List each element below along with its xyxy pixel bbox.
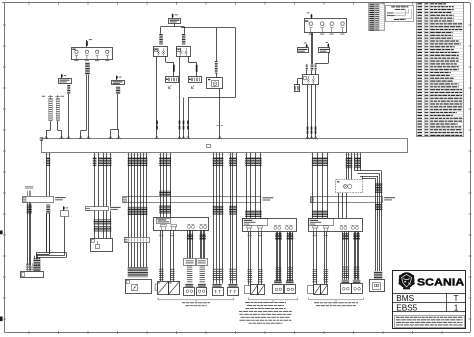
pin number labels under connector C1 xyxy=(74,59,109,62)
wire relay K2 to bus xyxy=(179,56,181,139)
component E1 label box xyxy=(298,43,309,53)
designation block above power connector xyxy=(33,259,40,272)
connector CB (open end) xyxy=(189,77,202,89)
copyright note box xyxy=(395,316,465,328)
6-wire group from harness (right end) xyxy=(345,153,362,180)
pin labels under connector C2 xyxy=(309,33,345,36)
wire relay K1 to connector CA xyxy=(166,56,175,76)
sensor quad mid-left xyxy=(274,231,282,284)
pressure sensor B3 xyxy=(212,284,223,296)
wheel speed sensor B7 xyxy=(341,284,352,294)
component G1 label box xyxy=(59,74,72,84)
wire bundle below C1 (designation band) xyxy=(85,62,90,139)
modulator valve V2 (diagonal symbol) xyxy=(169,282,180,295)
title block row dividers xyxy=(393,293,466,312)
wire colour legend box xyxy=(386,6,414,22)
stub wires above battery strip with label xyxy=(25,186,34,196)
ECU A3 box (right) xyxy=(309,219,363,232)
resistor network R1 (terminating resistors) xyxy=(42,95,64,121)
sensor quad harness (front left) xyxy=(187,230,193,258)
title text EBS5 / 1 xyxy=(396,303,458,312)
title text BMS / T xyxy=(396,294,458,303)
bundled wires routed to bottom-left power connector xyxy=(35,214,67,259)
component E2 label box xyxy=(319,42,330,52)
diagnostic connector box xyxy=(370,280,385,292)
bracket caption front axle group xyxy=(158,298,234,307)
wheel speed sensor B1 xyxy=(184,288,195,296)
wire designation band above relay K2 xyxy=(182,34,186,45)
relay K2 xyxy=(177,47,191,57)
title block outline xyxy=(393,271,466,329)
wires resistor network to bus xyxy=(46,121,61,139)
wheel speed sensor B2 xyxy=(197,288,207,296)
sensor quad right-left xyxy=(342,231,350,283)
wires battery strip down to central connector xyxy=(27,202,32,265)
sensor cable front right xyxy=(198,265,206,287)
return wires from supply loop to bus xyxy=(183,98,236,140)
wire relay K1 to bus xyxy=(156,56,158,139)
svg-text:1: 1 xyxy=(454,303,459,312)
fuse holder component near battery strip xyxy=(61,206,69,255)
connector C2 (4-pole, top center) xyxy=(305,19,347,33)
trailer connector strip xyxy=(86,207,121,211)
wire into buzzer H1 from supply branch xyxy=(215,28,218,78)
inline connector K-front-left xyxy=(184,259,196,266)
4-wire group harness to EBS ECU (left) xyxy=(159,153,172,218)
wire pair battery strip to bottom-left connector xyxy=(46,205,50,255)
connector C1 (4-pole, top left) xyxy=(72,48,113,60)
wire stub above C1 with designation xyxy=(86,39,92,47)
relay K1 xyxy=(154,47,168,57)
wire stub above C2 xyxy=(307,12,313,19)
inline connector K-front-right xyxy=(197,259,208,266)
chassis harness strip (center) xyxy=(123,197,274,203)
relay K3 xyxy=(303,75,319,85)
svg-text:EBS5: EBS5 xyxy=(396,303,417,312)
4-wire group harness to ECU A3 xyxy=(311,153,329,218)
bracket caption rear axle group xyxy=(239,298,298,324)
wire buzzer H1 to bus xyxy=(216,88,223,139)
supply wire branches from F1 xyxy=(161,23,236,98)
inline connector strip on SMC wires xyxy=(124,237,149,243)
Scania griffin emblem xyxy=(399,272,415,289)
EBS ECU box (left) xyxy=(154,218,209,231)
sensor quad right-right xyxy=(353,231,361,283)
wires C2 down to relay K3 xyxy=(312,33,329,64)
SCANIA wordmark xyxy=(417,277,464,288)
wire designation band above relay K1 xyxy=(159,34,163,45)
modulator valve V5 xyxy=(308,285,321,295)
chassis harness strip (right) xyxy=(310,197,395,203)
sensor quad harness (front right) xyxy=(200,230,206,258)
fold mark left edge lower xyxy=(0,317,3,322)
relay K3 side branch to open connector xyxy=(295,79,303,92)
ECU A2 box (center) xyxy=(243,219,297,232)
trailer socket box A xyxy=(91,239,113,252)
svg-text:BMS: BMS xyxy=(396,294,414,303)
wire from G2 to bus with jog xyxy=(111,87,121,139)
wire pairs ECU A2 to modulator valves (mid axle) xyxy=(248,231,263,285)
modulator valve V6 xyxy=(321,285,328,295)
bend wires to diagnostic drop xyxy=(355,171,382,183)
sensor cable front left xyxy=(185,265,193,287)
wires dashed box to ECU A3 xyxy=(339,193,347,218)
connector CA (open end) xyxy=(166,77,179,89)
EBS trailer control module box xyxy=(126,280,152,294)
modulator valve V1 (diagonal symbol) xyxy=(155,282,168,295)
battery feed strip (left) xyxy=(22,196,66,202)
wire pairs ECU to modulator valves xyxy=(159,230,175,281)
3-wire group harness to pressure sensor B4 xyxy=(229,153,238,284)
buzzer H1 box xyxy=(207,78,223,89)
wire relay K2 to connector CB xyxy=(188,56,197,76)
component G2 label box xyxy=(112,76,125,85)
wheel speed sensor B6 xyxy=(285,285,296,294)
wire pairs ECU A3 to modulator valves xyxy=(313,231,329,285)
wire group harness to trailer strip xyxy=(93,153,112,207)
main cable harness (bus) rectangle xyxy=(40,138,407,153)
svg-text:SCANIA: SCANIA xyxy=(417,277,464,288)
dashed option box with lamp symbol xyxy=(336,179,363,192)
wheel speed sensor B5 xyxy=(273,285,284,294)
junction triangles on harness xyxy=(44,136,317,139)
pressure sensor B4 xyxy=(228,284,239,296)
parts list table (right margin) xyxy=(417,3,464,138)
modulator valve V4 xyxy=(258,285,265,295)
component legend mini-table xyxy=(369,4,385,32)
wheel speed sensor B8 xyxy=(352,284,363,294)
designation bands above relay K3 xyxy=(306,64,317,75)
3-wire group harness to pressure sensor B3 xyxy=(212,153,224,284)
wire pair from harness to battery strip (left) xyxy=(46,153,51,196)
power distribution connector (bottom left) xyxy=(21,263,44,277)
harness label tag xyxy=(207,145,211,148)
fold mark left edge upper xyxy=(0,231,3,235)
wire from G1 to bus xyxy=(67,85,70,139)
wires trailer strip to trailer socket xyxy=(94,211,112,239)
7-wire group harness to SMC connector xyxy=(127,153,148,237)
bracket caption tag axle group xyxy=(309,298,364,307)
wires relay K3 to bus xyxy=(307,85,317,139)
sensor quad mid-right xyxy=(286,231,294,284)
fuse box F1 label xyxy=(169,14,181,24)
wire jog to bus from C1 bundle xyxy=(81,131,87,140)
diagnostic cable bundle xyxy=(374,183,382,279)
svg-text:T: T xyxy=(453,294,458,303)
modulator valve V3 xyxy=(245,285,258,295)
4-wire group harness to ECU A2 xyxy=(245,153,263,218)
wires to EBS trailer control module xyxy=(128,243,148,277)
